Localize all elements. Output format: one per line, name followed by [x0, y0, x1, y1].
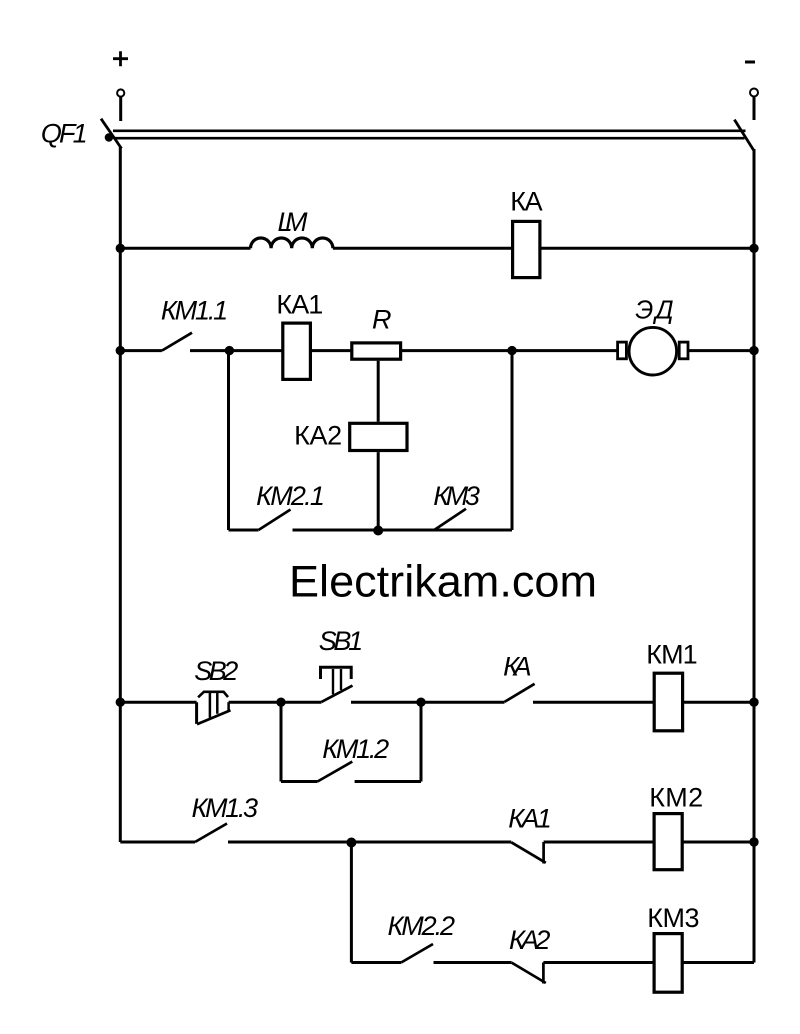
svg-text:SB2: SB2 — [194, 656, 238, 686]
svg-text:КА: КА — [503, 652, 531, 682]
svg-text:КА1: КА1 — [508, 804, 552, 834]
svg-text:КА2: КА2 — [509, 925, 550, 955]
svg-text:QF1: QF1 — [41, 119, 88, 149]
svg-text:Electrikam.com: Electrikam.com — [289, 557, 597, 606]
svg-text:КА: КА — [510, 187, 543, 217]
svg-text:КА1: КА1 — [276, 290, 323, 320]
svg-text:ЭД: ЭД — [635, 295, 673, 325]
svg-text:КМ2.1: КМ2.1 — [256, 481, 325, 511]
svg-text:LM: LM — [278, 207, 309, 237]
svg-text:КМ1: КМ1 — [646, 640, 697, 670]
svg-text:КМ2: КМ2 — [649, 783, 703, 813]
svg-text:КМ3: КМ3 — [647, 903, 699, 933]
svg-text:R: R — [372, 305, 392, 335]
svg-text:КМ3: КМ3 — [433, 481, 480, 511]
svg-text:КМ1.2: КМ1.2 — [322, 734, 389, 764]
svg-text:КМ1.1: КМ1.1 — [161, 296, 228, 326]
svg-text:КА2: КА2 — [294, 421, 342, 451]
svg-text:КМ1.3: КМ1.3 — [192, 793, 259, 823]
svg-text:КМ2.2: КМ2.2 — [388, 911, 456, 941]
svg-text:SB1: SB1 — [319, 626, 363, 656]
